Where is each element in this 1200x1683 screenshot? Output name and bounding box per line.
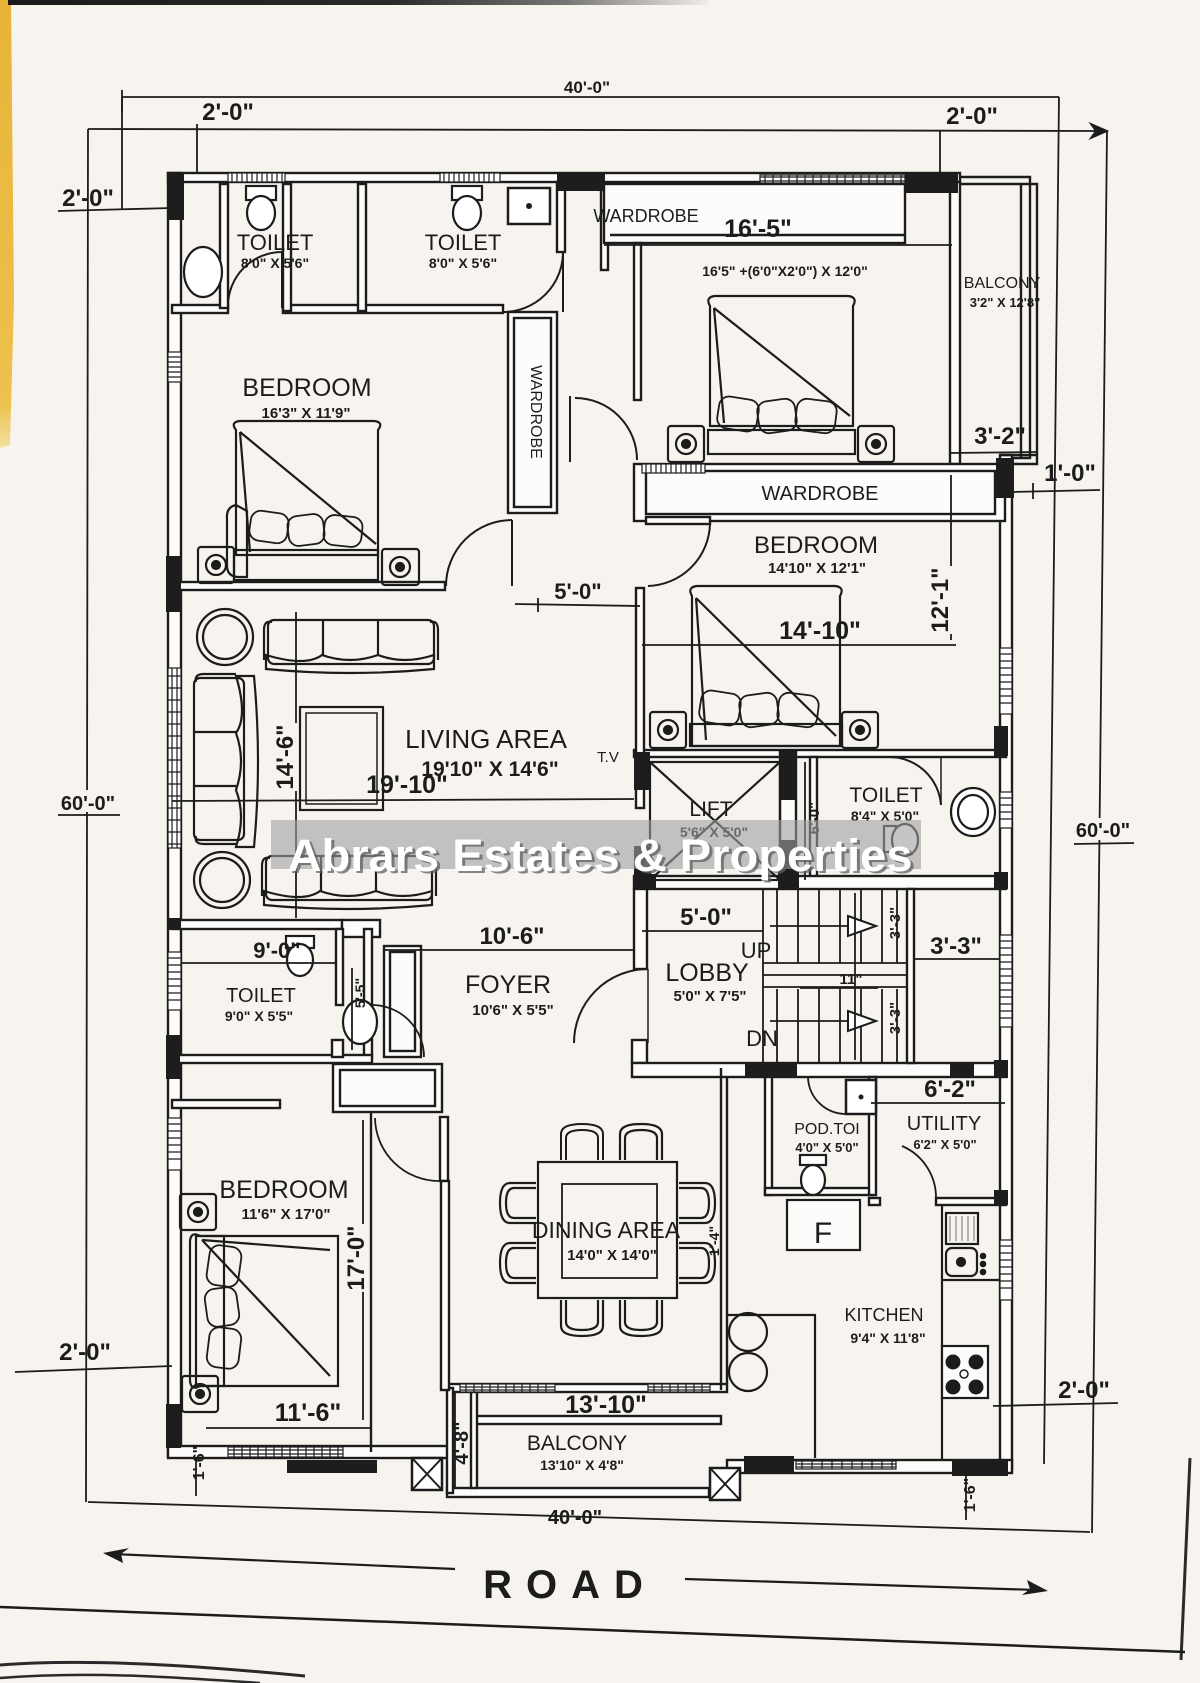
svg-text:BEDROOM: BEDROOM bbox=[754, 532, 878, 559]
svg-text:60'-0": 60'-0" bbox=[1076, 820, 1130, 842]
svg-text:FOYER: FOYER bbox=[465, 971, 551, 999]
svg-text:14'0" X 14'0": 14'0" X 14'0" bbox=[567, 1247, 657, 1264]
svg-text:40'-0": 40'-0" bbox=[564, 78, 610, 97]
svg-text:3'-3": 3'-3" bbox=[887, 1002, 904, 1034]
svg-text:2'-0": 2'-0" bbox=[1058, 1377, 1110, 1404]
svg-text:WARDROBE: WARDROBE bbox=[527, 365, 544, 459]
svg-text:14'10" X 12'1": 14'10" X 12'1" bbox=[768, 560, 866, 577]
svg-text:16'-5": 16'-5" bbox=[724, 215, 792, 243]
svg-text:12'-1": 12'-1" bbox=[927, 567, 954, 632]
svg-text:14'-6": 14'-6" bbox=[272, 724, 299, 789]
svg-text:10'6" X 5'5": 10'6" X 5'5" bbox=[472, 1002, 553, 1019]
svg-text:3'2" X 12'8": 3'2" X 12'8" bbox=[970, 295, 1041, 310]
svg-text:9'4" X 11'8": 9'4" X 11'8" bbox=[850, 1330, 925, 1346]
svg-text:2'-0": 2'-0" bbox=[62, 185, 114, 212]
svg-text:9'-0": 9'-0" bbox=[253, 938, 300, 963]
svg-text:LIVING AREA: LIVING AREA bbox=[405, 724, 567, 754]
svg-text:1'-6": 1'-6" bbox=[191, 1446, 208, 1481]
svg-text:Abrars Estates & Properties: Abrars Estates & Properties bbox=[288, 830, 913, 881]
svg-text:11'6" X 17'0": 11'6" X 17'0" bbox=[242, 1206, 331, 1223]
svg-text:17'-0": 17'-0" bbox=[343, 1225, 370, 1290]
svg-text:8'0" X 5'6": 8'0" X 5'6" bbox=[429, 255, 497, 271]
svg-text:13'-10": 13'-10" bbox=[565, 1391, 647, 1419]
svg-text:2'-0": 2'-0" bbox=[946, 103, 998, 130]
svg-text:WARDROBE: WARDROBE bbox=[593, 206, 698, 226]
svg-text:3'-2": 3'-2" bbox=[974, 423, 1026, 450]
svg-text:TOILET: TOILET bbox=[237, 230, 314, 255]
svg-text:LOBBY: LOBBY bbox=[665, 959, 749, 987]
svg-text:ROAD: ROAD bbox=[483, 1563, 657, 1607]
svg-text:6'2" X 5'0": 6'2" X 5'0" bbox=[913, 1137, 976, 1152]
svg-text:T.V: T.V bbox=[597, 749, 619, 766]
svg-text:3'-3": 3'-3" bbox=[887, 907, 904, 939]
svg-text:11'-6": 11'-6" bbox=[275, 1399, 341, 1427]
svg-text:3'-3": 3'-3" bbox=[930, 933, 982, 960]
svg-text:TOILET: TOILET bbox=[425, 230, 502, 255]
svg-text:10'-6": 10'-6" bbox=[479, 923, 544, 950]
svg-text:6'-2": 6'-2" bbox=[924, 1076, 976, 1103]
svg-text:BALCONY: BALCONY bbox=[527, 1432, 627, 1455]
svg-text:5'0" X 7'5": 5'0" X 7'5" bbox=[673, 988, 746, 1005]
svg-text:KITCHEN: KITCHEN bbox=[844, 1305, 923, 1325]
svg-text:BEDROOM: BEDROOM bbox=[242, 374, 371, 402]
svg-text:UTILITY: UTILITY bbox=[907, 1113, 981, 1135]
svg-text:1'-0": 1'-0" bbox=[1044, 460, 1096, 487]
svg-text:5'-0": 5'-0" bbox=[554, 579, 601, 604]
svg-text:5'-0": 5'-0" bbox=[680, 904, 732, 931]
svg-text:DN: DN bbox=[746, 1026, 778, 1051]
svg-text:BALCONY: BALCONY bbox=[964, 275, 1041, 292]
svg-text:4'0" X 5'0": 4'0" X 5'0" bbox=[795, 1140, 858, 1155]
svg-text:16'5" +(6'0"X2'0") X 12'0": 16'5" +(6'0"X2'0") X 12'0" bbox=[702, 263, 868, 279]
svg-text:WARDROBE: WARDROBE bbox=[761, 483, 878, 505]
svg-text:BEDROOM: BEDROOM bbox=[219, 1176, 348, 1204]
svg-text:POD.TOI: POD.TOI bbox=[794, 1121, 860, 1138]
svg-text:2'-0": 2'-0" bbox=[59, 1339, 111, 1366]
svg-text:1'-6": 1'-6" bbox=[962, 1478, 979, 1513]
svg-text:8'0" X 5'6": 8'0" X 5'6" bbox=[241, 255, 309, 271]
svg-text:LIFT: LIFT bbox=[689, 798, 732, 821]
svg-text:9'0" X 5'5": 9'0" X 5'5" bbox=[225, 1008, 293, 1024]
svg-text:5'-5": 5'-5" bbox=[352, 978, 368, 1008]
svg-text:60'-0": 60'-0" bbox=[61, 793, 115, 815]
svg-text:TOILET: TOILET bbox=[849, 784, 922, 807]
svg-text:4'-8": 4'-8" bbox=[451, 1421, 473, 1464]
svg-text:11": 11" bbox=[840, 971, 863, 988]
svg-text:19'10" X 14'6": 19'10" X 14'6" bbox=[421, 758, 558, 781]
svg-text:40'-0": 40'-0" bbox=[548, 1507, 602, 1529]
svg-text:F: F bbox=[814, 1217, 832, 1250]
svg-text:14'-10": 14'-10" bbox=[779, 617, 861, 645]
svg-text:13'10" X 4'8": 13'10" X 4'8" bbox=[540, 1457, 624, 1473]
svg-text:DINING AREA: DINING AREA bbox=[532, 1217, 681, 1243]
svg-text:2'-0": 2'-0" bbox=[202, 99, 254, 126]
svg-text:16'3" X 11'9": 16'3" X 11'9" bbox=[262, 405, 351, 422]
svg-text:1'-4": 1'-4" bbox=[706, 1226, 722, 1256]
svg-text:UP: UP bbox=[741, 938, 772, 963]
svg-text:TOILET: TOILET bbox=[226, 985, 296, 1007]
